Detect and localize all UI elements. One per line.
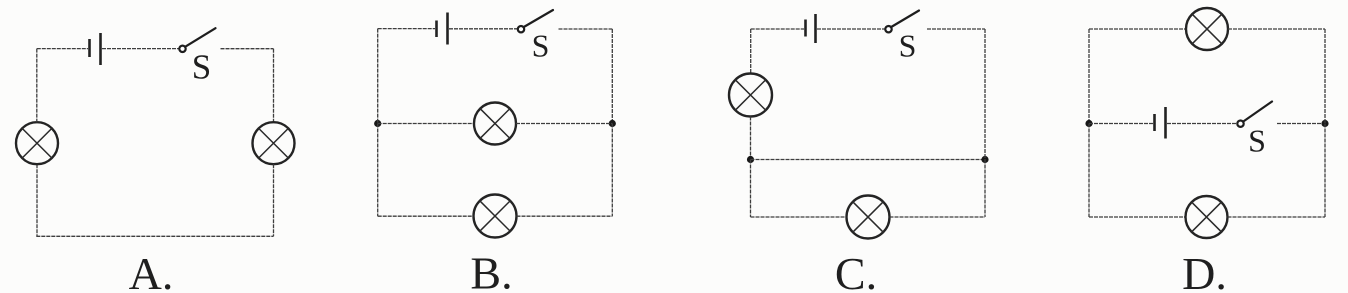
battery (B) long plate (446, 13, 449, 45)
wire A right side upper (273, 49, 275, 123)
switch S (A) pivot circle (179, 46, 185, 52)
battery (A) short plate (88, 39, 91, 57)
wire A bottom (36, 235, 273, 237)
wire B left side lower (377, 124, 379, 217)
battery (B) short plate (435, 21, 438, 38)
wire D battery to switch (1167, 123, 1237, 125)
wire D bottom right (1228, 216, 1326, 218)
svg-text:C.: C. (835, 248, 877, 293)
junction dot D left (1085, 120, 1092, 127)
junction dot C right (981, 156, 988, 163)
wire D right side lower (1324, 124, 1326, 218)
svg-text:S: S (192, 48, 211, 87)
battery (C) long plate (814, 14, 817, 43)
lamp (A right) circle (253, 122, 295, 164)
switch S (C) blade (891, 11, 919, 28)
wire B middle branch left (378, 123, 474, 125)
svg-text:B.: B. (470, 248, 512, 293)
wire B switch to top-right corner (559, 28, 613, 30)
svg-text:S: S (1248, 123, 1266, 159)
lamp (C bottom) circle (847, 196, 890, 239)
wire B bottom right (517, 215, 613, 217)
lamp (D bottom) circle (1186, 196, 1228, 238)
lamp (D bottom) cross (1192, 202, 1222, 232)
wire D switch to right junction (1277, 123, 1325, 125)
svg-text:S: S (532, 28, 550, 64)
wire A switch to top-right corner (221, 48, 274, 50)
junction dot B left (374, 120, 381, 127)
wire A right side lower (273, 164, 275, 236)
lamp (C bottom) cross (853, 202, 883, 232)
wire D bottom left (1089, 216, 1186, 218)
wire D top right segment (1228, 28, 1325, 30)
switch S (D) pivot circle (1237, 121, 1243, 127)
svg-text:A.: A. (129, 248, 174, 293)
lamp (B bottom) circle (474, 195, 517, 238)
battery (C) short plate (804, 20, 807, 37)
wire C switch to top-right corner (927, 28, 985, 30)
wire D left side lower (1088, 124, 1090, 218)
wire B middle branch right (516, 123, 612, 125)
wire B right side lower (611, 124, 613, 217)
switch S (C) pivot circle (885, 26, 891, 32)
battery (D) long plate (1164, 107, 1167, 139)
wire D left side upper (1088, 29, 1090, 124)
wire C bottom right (890, 216, 986, 218)
junction dot B right (609, 120, 616, 127)
switch S (B) blade (524, 10, 553, 27)
wire A left side upper (36, 49, 38, 123)
battery (A) long plate (99, 33, 102, 65)
wire C right side upper (984, 29, 986, 160)
wire C right side lower (984, 160, 986, 218)
wire B right side upper (611, 29, 613, 124)
battery (D) short plate (1153, 114, 1156, 131)
svg-text:D.: D. (1182, 248, 1227, 293)
lamp (A left) circle (16, 122, 58, 164)
wire B battery to switch (449, 28, 517, 30)
wire C middle branch (751, 159, 986, 161)
lamp (B middle) circle (474, 103, 516, 145)
wire D top left segment (1089, 28, 1186, 30)
wire B top-left segment (378, 28, 435, 30)
wire A battery to switch (102, 48, 179, 50)
junction dot C left (747, 156, 754, 163)
switch S (B) pivot circle (518, 26, 524, 32)
lamp (C left) circle (729, 74, 772, 117)
lamp (A right) cross (259, 128, 289, 158)
wire C left lamp to junction (750, 117, 752, 160)
wire C left side upper (750, 29, 752, 74)
wire D middle junction to battery (1089, 123, 1153, 125)
junction dot D right (1321, 120, 1328, 127)
wire C battery to switch (817, 28, 885, 30)
lamp (B bottom) cross (480, 201, 510, 231)
wire D right side upper (1324, 29, 1326, 124)
wire B bottom left (378, 215, 474, 217)
lamp (B middle) cross (480, 109, 510, 139)
lamp (A left) cross (22, 128, 52, 158)
wire C top-left segment (751, 28, 804, 30)
lamp (D top) cross (1192, 14, 1222, 44)
lamp (D top) circle (1186, 8, 1228, 50)
wire A top-left segment (37, 48, 88, 50)
wire C left side lower (750, 160, 752, 218)
wire A left side lower (36, 164, 38, 236)
wire B left side upper (377, 29, 379, 124)
switch S (D) blade (1243, 102, 1272, 122)
lamp (C left) cross (735, 80, 765, 110)
switch S (A) blade (185, 28, 215, 47)
wire C bottom left (751, 216, 847, 218)
svg-text:S: S (899, 28, 917, 64)
